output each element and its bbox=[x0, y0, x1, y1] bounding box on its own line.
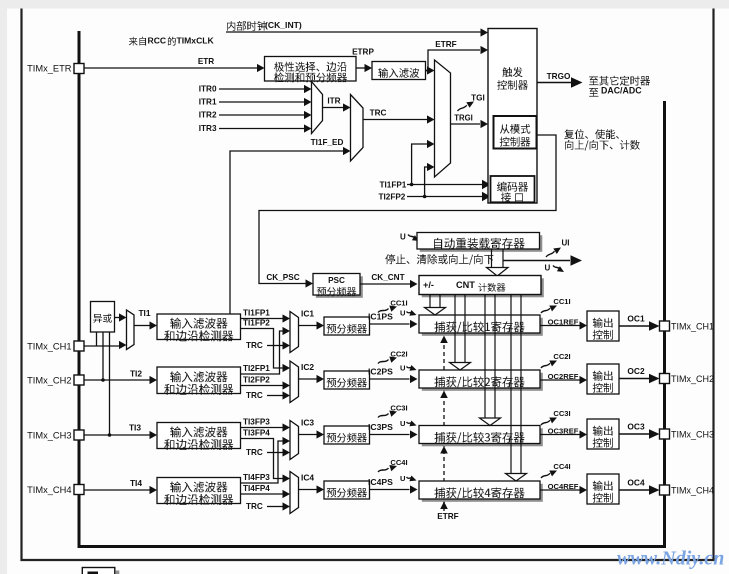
block output control ch2 bbox=[587, 364, 619, 394]
svg-text:ITR0: ITR0 bbox=[199, 84, 217, 93]
svg-text:TI1FP1: TI1FP1 bbox=[380, 180, 407, 189]
wire CNT to capture/compare hollow arrows bbox=[430, 295, 440, 308]
wire ETRF dashed clear line (under registers) bbox=[443, 336, 445, 503]
svg-text:TI4FP3: TI4FP3 bbox=[243, 473, 270, 482]
wire TI2FP1 cross up to IC1 mux bbox=[241, 331, 284, 374]
block input filter bbox=[372, 62, 426, 80]
svg-text:TI1: TI1 bbox=[138, 308, 150, 318]
svg-text:ITR3: ITR3 bbox=[199, 124, 217, 133]
svg-text:TI1FP2: TI1FP2 bbox=[243, 318, 270, 327]
svg-text:TRC: TRC bbox=[246, 502, 263, 511]
svg-text:+/-: +/- bbox=[423, 280, 434, 290]
svg-text:U: U bbox=[545, 263, 551, 272]
svg-text:CNT: CNT bbox=[456, 280, 475, 290]
wire XOR inputs from CH1 CH2 CH3 bbox=[97, 332, 110, 435]
svg-text:TIMxCLK: TIMxCLK bbox=[177, 35, 215, 45]
block polarity selection edge detector prescaler bbox=[265, 57, 357, 82]
block trigger controller U1 bbox=[488, 29, 537, 204]
svg-text:TI3: TI3 bbox=[129, 422, 141, 432]
svg-text:TRC: TRC bbox=[246, 391, 263, 400]
svg-text:www.Ndiy.cn: www.Ndiy.cn bbox=[617, 548, 724, 570]
mux IC4 select bbox=[290, 472, 299, 514]
wire chip boundary bus (left, bottom, right) bbox=[79, 31, 665, 547]
event U update arrow bbox=[503, 260, 570, 262]
register capture/compare 1 bbox=[422, 318, 543, 336]
register capture/compare 2 bbox=[422, 373, 543, 391]
block XOR bbox=[91, 302, 115, 333]
svg-text:TI2: TI2 bbox=[130, 368, 142, 378]
block output control ch1 bbox=[587, 311, 619, 341]
block input filter & edge detector ch1 bbox=[157, 314, 241, 340]
wire TI2FP2 to IC2 mux bbox=[241, 385, 284, 387]
svg-text:TI4: TI4 bbox=[130, 478, 142, 488]
svg-text:TIMx_CH1: TIMx_CH1 bbox=[27, 341, 71, 351]
wire CK_PSC from slave mode controller bbox=[259, 135, 556, 284]
svg-text:IC1: IC1 bbox=[301, 308, 314, 318]
wire TI4FP4 to IC4 mux bbox=[241, 493, 284, 495]
svg-text:RCC: RCC bbox=[148, 35, 167, 45]
svg-text:IC1PS: IC1PS bbox=[368, 312, 393, 322]
svg-text:IC3PS: IC3PS bbox=[368, 422, 393, 432]
svg-text:CC1I: CC1I bbox=[553, 297, 570, 306]
svg-text:IC2PS: IC2PS bbox=[368, 367, 393, 377]
svg-text:TIMx_CH2: TIMx_CH2 bbox=[671, 374, 714, 384]
svg-text:TI2FP1: TI2FP1 bbox=[243, 364, 270, 373]
svg-text:IC2: IC2 bbox=[301, 362, 314, 372]
net CK_INT internal clock bbox=[227, 21, 235, 31]
wire TI1FP1 to IC1 mux bbox=[241, 318, 284, 320]
svg-text:TI2FP2: TI2FP2 bbox=[379, 192, 406, 201]
mux TI1 select bbox=[127, 310, 135, 350]
svg-text:TI3FP4: TI3FP4 bbox=[243, 428, 270, 437]
wire ETRF arrowheads into registers bbox=[440, 336, 448, 344]
label stop clear or up/down bbox=[385, 254, 395, 264]
svg-text:DAC/ADC: DAC/ADC bbox=[601, 86, 642, 96]
svg-text:IC4: IC4 bbox=[301, 472, 314, 482]
svg-text:U: U bbox=[400, 309, 406, 318]
wire TI1 bbox=[134, 325, 150, 327]
svg-text:TIMx_CH4: TIMx_CH4 bbox=[27, 485, 71, 495]
svg-text:ETRF: ETRF bbox=[437, 512, 458, 521]
pin TIMx_CH2 output bbox=[660, 374, 670, 384]
pin TIMx_CH3 output bbox=[660, 429, 670, 439]
svg-text:CK_CNT: CK_CNT bbox=[371, 273, 404, 282]
svg-text:TI1F_ED: TI1F_ED bbox=[311, 138, 344, 147]
svg-text:ITR1: ITR1 bbox=[199, 97, 217, 106]
svg-text:CC4I: CC4I bbox=[553, 462, 570, 471]
svg-text:OC3: OC3 bbox=[627, 421, 645, 431]
svg-text:TRGI: TRGI bbox=[454, 114, 473, 123]
svg-text:UI: UI bbox=[562, 238, 570, 247]
block output control ch4 bbox=[587, 474, 619, 504]
svg-text:OC2: OC2 bbox=[627, 366, 645, 376]
label reset enable up/down count bbox=[564, 129, 574, 139]
label TIMxCLK from RCC bbox=[129, 37, 138, 46]
svg-text:TI4FP4: TI4FP4 bbox=[243, 484, 270, 493]
svg-text:CC2I: CC2I bbox=[553, 352, 570, 361]
mux IC3 select bbox=[290, 421, 299, 460]
register capture/compare 3 bbox=[422, 428, 543, 446]
svg-text:TRC: TRC bbox=[370, 108, 387, 117]
block input filter & edge detector ch2 bbox=[157, 367, 241, 394]
svg-text:ITR: ITR bbox=[327, 96, 340, 105]
svg-text:ETRP: ETRP bbox=[352, 47, 374, 56]
svg-text:TIMx_CH3: TIMx_CH3 bbox=[671, 430, 714, 440]
mux IC2 select bbox=[290, 361, 299, 403]
svg-text:U: U bbox=[400, 419, 406, 428]
legend box (cropped) bbox=[82, 568, 115, 574]
svg-text:TI1FP1: TI1FP1 bbox=[243, 308, 270, 317]
pin TIMx_CH4 output bbox=[660, 485, 670, 495]
register capture/compare 4 bbox=[422, 484, 543, 502]
mux TRC select bbox=[351, 95, 364, 162]
svg-text:TIMx_CH2: TIMx_CH2 bbox=[27, 375, 71, 385]
mux IC1 select bbox=[290, 312, 299, 353]
svg-text:IC4PS: IC4PS bbox=[368, 477, 393, 487]
svg-text:ITR2: ITR2 bbox=[199, 110, 217, 119]
block prescaler ch4 bbox=[324, 481, 370, 499]
svg-text:TRC: TRC bbox=[246, 448, 263, 457]
block prescaler ch1 bbox=[324, 317, 370, 335]
svg-text:TIMx_CH1: TIMx_CH1 bbox=[671, 322, 714, 332]
svg-text:U: U bbox=[400, 474, 406, 483]
wire ARR to CNT hollow arrow bbox=[492, 249, 504, 268]
svg-text:U: U bbox=[400, 232, 406, 241]
svg-text:TRGO: TRGO bbox=[547, 72, 571, 81]
wire TI4FP3 cross up to IC3 mux bbox=[241, 441, 284, 483]
wire TI3FP3 to IC3 mux bbox=[241, 427, 284, 429]
wire TI1FP2 cross down to IC2 mux bbox=[241, 329, 284, 369]
svg-text:TI3FP3: TI3FP3 bbox=[243, 417, 270, 426]
block prescaler ch3 bbox=[324, 426, 370, 444]
mux ITR select bbox=[312, 82, 323, 134]
block prescaler ch2 bbox=[324, 371, 370, 389]
block slave mode controller bbox=[494, 116, 537, 149]
svg-text:TIMx_CH3: TIMx_CH3 bbox=[27, 430, 71, 440]
block input filter & edge detector ch4 bbox=[157, 478, 241, 504]
svg-text:IC3: IC3 bbox=[301, 417, 314, 427]
svg-text:TI2FP2: TI2FP2 bbox=[243, 375, 270, 384]
svg-text:CC3I: CC3I bbox=[553, 409, 570, 418]
svg-text:PSC: PSC bbox=[328, 276, 345, 285]
wire XOR output bbox=[115, 317, 120, 319]
block encoder interface bbox=[491, 176, 535, 202]
svg-text:CK_PSC: CK_PSC bbox=[266, 273, 299, 282]
wire TIMx_CH1 to mux bbox=[84, 345, 119, 347]
wire TI3FP4 cross down to IC4 mux bbox=[241, 439, 284, 479]
svg-text:TIMx_ETR: TIMx_ETR bbox=[27, 63, 72, 73]
svg-text:(CK_INT): (CK_INT) bbox=[265, 20, 302, 30]
svg-text:TRC: TRC bbox=[246, 341, 263, 350]
svg-text:TIMx_CH4: TIMx_CH4 bbox=[671, 486, 714, 496]
block input filter & edge detector ch3 bbox=[157, 423, 241, 449]
svg-text:ETRF: ETRF bbox=[435, 40, 456, 49]
label to other timers and DAC/ADC bbox=[589, 77, 598, 86]
pin TIMx_CH1 output bbox=[660, 321, 670, 331]
register auto-reload ARR bbox=[420, 235, 543, 252]
svg-text:ETR: ETR bbox=[198, 57, 214, 66]
svg-text:TGI: TGI bbox=[471, 93, 485, 102]
svg-text:OC4: OC4 bbox=[627, 477, 645, 487]
block PSC prescaler bbox=[316, 276, 363, 298]
mux trigger selection bbox=[435, 60, 451, 177]
svg-text:OC1: OC1 bbox=[627, 313, 645, 323]
block output control ch3 bbox=[587, 419, 619, 449]
svg-text:U: U bbox=[400, 364, 406, 373]
register CNT counter bbox=[422, 278, 544, 297]
